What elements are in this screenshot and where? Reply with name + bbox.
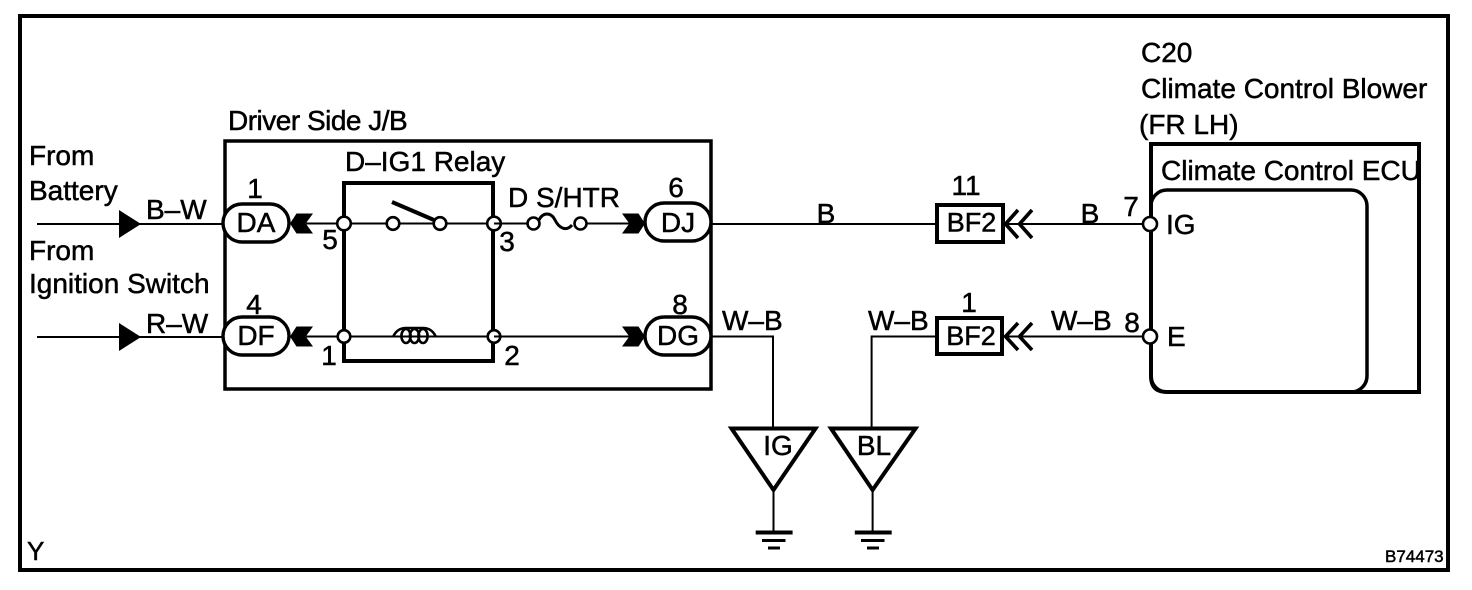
svg-text:E: E — [1167, 321, 1186, 352]
svg-text:DF: DF — [237, 320, 274, 351]
svg-text:4: 4 — [246, 289, 262, 320]
wire from battery — [37, 223, 223, 225]
connector DF pin 4 — [223, 317, 289, 355]
switch blade — [392, 202, 434, 220]
svg-text:1: 1 — [961, 287, 977, 318]
wire pin2 to DG arrow — [494, 336, 645, 338]
wire pin1 to pin2 (coil row) — [344, 336, 494, 338]
connector DA pin 1 — [223, 204, 289, 242]
ECU outer box — [1151, 144, 1419, 392]
svg-text:Driver Side J/B: Driver Side J/B — [228, 105, 407, 136]
svg-text:IG: IG — [1166, 209, 1196, 240]
D-IG1 Relay box — [344, 183, 493, 361]
pin 7 IG — [1143, 217, 1157, 231]
switch contact right — [434, 217, 447, 230]
svg-text:W–B: W–B — [722, 305, 783, 336]
svg-text:(FR LH): (FR LH) — [1139, 109, 1239, 140]
arrow battery — [119, 210, 141, 238]
relay pin 3 — [487, 217, 501, 231]
svg-text:BF2: BF2 — [947, 208, 997, 238]
switch contact left — [387, 217, 400, 230]
svg-text:B: B — [1081, 198, 1100, 229]
svg-text:DA: DA — [237, 207, 276, 238]
Driver Side J/B box — [225, 141, 711, 389]
svg-text:Battery: Battery — [29, 175, 118, 206]
wire from ignition switch — [37, 336, 223, 338]
connector DG pin 8 — [645, 317, 711, 355]
wire pin5 to pin3 (switch row) — [344, 223, 494, 225]
wire fuse to DJ arrow — [586, 223, 645, 225]
svg-text:Climate Control ECU: Climate Control ECU — [1161, 155, 1421, 186]
svg-text:C20: C20 — [1141, 37, 1192, 68]
junction BF2 pin 1 — [937, 318, 1002, 354]
svg-text:B74473: B74473 — [1385, 547, 1444, 566]
wire DG to ground IG (W-B) — [711, 337, 773, 429]
svg-text:Ignition Switch: Ignition Switch — [29, 268, 210, 299]
svg-text:From: From — [29, 140, 94, 171]
ground triangle BL — [831, 429, 916, 491]
arrow into DG — [622, 327, 645, 347]
arrow into DF — [290, 327, 313, 347]
chevrons row1 — [1006, 210, 1019, 238]
svg-text:8: 8 — [1124, 307, 1140, 338]
svg-text:BF2: BF2 — [946, 321, 996, 351]
svg-text:6: 6 — [668, 172, 684, 203]
arrow ignition — [119, 323, 141, 351]
svg-text:IG: IG — [763, 430, 793, 461]
svg-text:1: 1 — [321, 340, 337, 371]
ECU inner rounded box — [1151, 190, 1367, 392]
connector DJ pin 6 — [645, 203, 711, 241]
ground symbol under IG — [773, 492, 775, 532]
wire DA arrow to pin5 — [306, 223, 344, 225]
svg-text:R–W: R–W — [146, 308, 209, 339]
svg-text:W–B: W–B — [868, 305, 929, 336]
svg-text:D–IG1 Relay: D–IG1 Relay — [345, 146, 505, 177]
arrow into DJ — [622, 214, 645, 234]
svg-text:DJ: DJ — [661, 207, 695, 238]
ground triangle IG — [732, 429, 816, 491]
svg-text:7: 7 — [1123, 191, 1139, 222]
wire BF2 to IG pin (B) — [1006, 223, 1142, 225]
wire DJ to BF2 (B) — [711, 223, 935, 225]
svg-text:Y: Y — [27, 536, 44, 566]
svg-text:11: 11 — [951, 170, 980, 201]
ground symbol under BL — [872, 492, 874, 532]
svg-text:Climate Control Blower: Climate Control Blower — [1141, 73, 1427, 104]
junction BF2 pin 11 — [937, 205, 1003, 242]
svg-text:D S/HTR: D S/HTR — [508, 182, 620, 213]
relay coil — [393, 328, 436, 337]
wire DF arrow to pin1 — [306, 336, 344, 338]
relay pin 1 — [338, 330, 351, 343]
arrow into DA — [290, 214, 313, 234]
svg-text:2: 2 — [504, 340, 520, 371]
wire pin3 to fuse — [494, 223, 533, 225]
wire BL to BF2 (W-B) — [872, 337, 935, 429]
fuse D S/HTR symbol — [528, 218, 540, 230]
pin 8 E — [1143, 330, 1157, 344]
svg-text:8: 8 — [672, 289, 688, 320]
svg-text:From: From — [29, 235, 94, 266]
svg-text:BL: BL — [857, 430, 891, 461]
relay pin 5 — [337, 217, 351, 231]
svg-text:B–W: B–W — [146, 194, 207, 225]
svg-text:5: 5 — [322, 224, 338, 255]
wire BF2 to E pin (W-B) — [1005, 336, 1142, 338]
svg-text:W–B: W–B — [1051, 305, 1112, 336]
svg-text:B: B — [817, 198, 836, 229]
svg-text:3: 3 — [499, 226, 515, 257]
svg-text:1: 1 — [247, 173, 263, 204]
relay pin 2 — [488, 330, 501, 343]
svg-text:DG: DG — [657, 320, 699, 351]
chevrons row2 — [1006, 323, 1019, 350]
